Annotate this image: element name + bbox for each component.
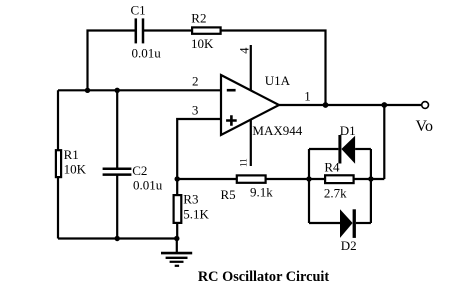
svg-text:10K: 10K: [64, 161, 87, 176]
svg-text:10K: 10K: [191, 36, 214, 51]
svg-text:Vo: Vo: [416, 118, 434, 135]
svg-text:0.01u: 0.01u: [132, 46, 162, 61]
svg-text:R2: R2: [191, 10, 206, 25]
svg-text:R1: R1: [64, 147, 79, 162]
svg-text:11: 11: [239, 158, 249, 167]
svg-text:RC Oscillator Circuit: RC Oscillator Circuit: [198, 269, 330, 285]
svg-text:R4: R4: [324, 159, 340, 174]
svg-text:MAX944: MAX944: [252, 123, 302, 138]
svg-text:D1: D1: [340, 123, 356, 138]
svg-text:C1: C1: [131, 2, 146, 17]
svg-text:2.7k: 2.7k: [324, 186, 347, 201]
svg-text:9.1k: 9.1k: [250, 185, 273, 200]
svg-text:C2: C2: [132, 163, 147, 178]
svg-text:R5: R5: [221, 187, 236, 202]
svg-text:5.1K: 5.1K: [183, 206, 209, 221]
svg-text:4: 4: [237, 47, 251, 54]
svg-text:2: 2: [192, 73, 199, 88]
svg-text:3: 3: [192, 103, 199, 118]
svg-text:0.01u: 0.01u: [133, 178, 163, 193]
svg-text:U1A: U1A: [265, 73, 291, 88]
svg-text:D2: D2: [341, 238, 357, 253]
svg-text:1: 1: [304, 89, 311, 104]
svg-text:R3: R3: [183, 191, 198, 206]
